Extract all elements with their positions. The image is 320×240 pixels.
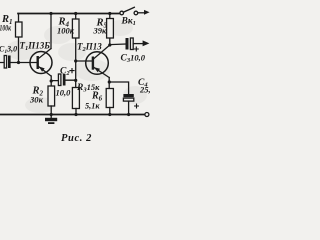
- wire bottom rail (common): [0, 114, 145, 116]
- label C3 plus: [134, 47, 139, 52]
- node base T1: [17, 61, 20, 64]
- capacitor C4: [109, 82, 134, 115]
- node R4 rail: [74, 12, 77, 15]
- node R6 ground: [108, 113, 111, 116]
- svg-text:100к: 100к: [57, 26, 75, 36]
- svg-text:С13,0: С13,0: [0, 45, 17, 56]
- node T1 collector rail: [49, 12, 52, 15]
- svg-text:С310,0: С310,0: [121, 53, 146, 65]
- wire top rail: [18, 13, 120, 15]
- node R3 ground: [74, 113, 77, 116]
- node C4 ground: [127, 113, 130, 116]
- label C2 plus: [69, 68, 74, 73]
- resistor R3: [72, 88, 79, 115]
- wire base node down to C2 node: [75, 61, 77, 88]
- capacitor C2: [51, 74, 75, 86]
- resistor R6: [106, 89, 113, 115]
- wire T1 emitter down: [50, 76, 52, 86]
- paper background: [0, 0, 150, 150]
- svg-text:Т1П13Б: Т1П13Б: [20, 41, 51, 53]
- svg-text:10,0: 10,0: [56, 88, 72, 98]
- svg-text:Т2П13: Т2П13: [77, 42, 102, 54]
- wire T2 base: [76, 60, 92, 62]
- capacitor C3: [110, 38, 150, 50]
- node T2 collector: [108, 43, 111, 46]
- resistor R4: [72, 14, 79, 62]
- node T2 emitter: [108, 80, 111, 83]
- transistor T1: [30, 49, 52, 77]
- node R2 ground: [50, 113, 53, 116]
- wire T1 collector to rail: [50, 14, 52, 49]
- capacitor C1: [0, 56, 37, 69]
- battery terminal bottom right: [145, 113, 149, 117]
- svg-text:100к: 100к: [0, 23, 11, 33]
- svg-text:25,0: 25,0: [139, 85, 150, 95]
- ground: [45, 115, 57, 125]
- resistor R5: [107, 14, 114, 46]
- label C4 plus: [134, 104, 139, 109]
- transistor T2: [86, 45, 110, 77]
- svg-text:30к: 30к: [29, 95, 44, 105]
- node R5 rail: [108, 12, 111, 15]
- resistor R2: [48, 86, 55, 115]
- svg-text:39к: 39к: [93, 26, 108, 36]
- svg-text:Рис. 2: Рис. 2: [61, 133, 92, 144]
- node T2 base divider: [74, 59, 77, 62]
- node C2 out: [74, 79, 77, 82]
- wire T2 emitter down: [108, 78, 110, 89]
- node T1 emitter: [50, 79, 53, 82]
- switch Vk1: [120, 7, 150, 14]
- resistor R1: [16, 14, 23, 63]
- svg-text:5,1к: 5,1к: [85, 101, 100, 111]
